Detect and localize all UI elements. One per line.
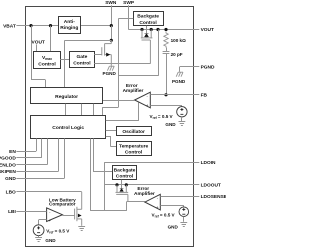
svg-text:GND: GND — [168, 224, 179, 229]
svg-text:PGND: PGND — [201, 64, 215, 70]
node SWN-drain — [110, 39, 113, 42]
svg-text:EN: EN — [9, 149, 16, 155]
wire ENLDO riser — [25, 164, 47, 166]
wire regulator to control logic c — [93, 104, 95, 116]
svg-text:SKIPEN: SKIPEN — [0, 169, 16, 175]
block Temperature Control — [117, 142, 152, 156]
svg-text:PGND: PGND — [103, 71, 117, 76]
svg-text:VOUT: VOUT — [32, 39, 45, 45]
wire U1 output to regulator — [103, 100, 135, 102]
wire gate control to NMOS gate — [94, 54, 102, 56]
source V1 Vref 0.5V — [177, 107, 187, 117]
transistor Q1 power NMOS — [102, 40, 112, 66]
svg-text:Control: Control — [38, 61, 56, 67]
svg-text:PGOOD: PGOOD — [0, 156, 16, 162]
wire LBO line — [25, 191, 82, 193]
ground GND of Q4 — [78, 227, 85, 231]
node P3 — [156, 28, 159, 31]
svg-text:Temperature: Temperature — [119, 144, 149, 150]
wire U2 + input to Vref — [160, 205, 184, 207]
svg-text:Oscillator: Oscillator — [122, 129, 145, 135]
svg-text:Backgate: Backgate — [114, 168, 136, 174]
wire CL to temperature control — [106, 136, 111, 138]
ground GND of V3 — [180, 223, 187, 227]
wire SWP down and right — [128, 29, 142, 31]
svg-text:GND: GND — [165, 122, 176, 127]
svg-text:Control: Control — [116, 174, 134, 180]
svg-text:Amplifier: Amplifier — [134, 191, 155, 197]
transistor Q3 LDO pass PMOS — [116, 185, 129, 202]
wire VOUT top line — [142, 29, 193, 31]
svg-text:Regulator: Regulator — [55, 94, 78, 100]
svg-text:LBO: LBO — [6, 190, 16, 196]
wire C1 to FB — [166, 54, 168, 95]
svg-text:FB: FB — [201, 93, 208, 99]
wire LDOIN down — [104, 162, 106, 211]
block Oscillator — [117, 127, 152, 136]
block Backgate Control top — [134, 12, 164, 26]
block Regulator — [31, 88, 103, 104]
wire U3 + input from Vref — [39, 219, 47, 221]
wire backgate2 body stub — [121, 180, 123, 185]
wire FB line — [150, 94, 193, 96]
wire regulator to control logic a — [65, 104, 67, 116]
pin VOUT — [193, 29, 199, 31]
wire Vmax to Gate Control — [60, 59, 69, 61]
svg-text:LBI: LBI — [8, 209, 16, 215]
svg-text:Gate: Gate — [76, 54, 87, 60]
resistor R1 100 kOhm — [164, 32, 168, 48]
source V2 Vref 0.5V — [33, 225, 44, 236]
diode D2 body diode — [121, 185, 123, 188]
ground GND of V1 — [179, 122, 186, 126]
wire CL enable down to gate node — [90, 139, 92, 211]
pin LDOIN — [193, 162, 199, 164]
svg-text:GND: GND — [45, 238, 56, 243]
wire gatectrl to backgate block — [118, 18, 120, 63]
svg-text:LDOOUT: LDOOUT — [201, 183, 221, 189]
block Gate Control — [70, 52, 95, 68]
svg-text:GND: GND — [5, 176, 16, 182]
transistor Q4 LBO open drain — [75, 192, 82, 226]
node VBAT-B — [49, 24, 52, 27]
block Anti-Ringing — [59, 17, 81, 34]
wire VBAT rail — [25, 25, 58, 27]
wire gate control lower output — [94, 63, 150, 65]
wire V2 to GND — [38, 236, 40, 238]
wire regulator to control logic b — [81, 104, 83, 116]
svg-text:Control: Control — [73, 61, 91, 67]
node P4 — [164, 28, 167, 31]
svg-text:ENLDO: ENLDO — [0, 163, 16, 169]
wire LDOOUT line — [104, 184, 193, 186]
node L1 — [115, 183, 118, 186]
svg-text:VOUT: VOUT — [201, 27, 214, 33]
wire CL to backgate2 — [93, 139, 95, 172]
wire gate node to U2 output — [127, 201, 145, 203]
svg-text:PGND: PGND — [172, 79, 186, 84]
wire PGND pin to ground — [180, 66, 193, 68]
block Vmax Control — [34, 52, 61, 69]
wire LBI to U3 — [25, 211, 47, 213]
wire SKIPEN riser — [25, 171, 58, 173]
node VBAT-A — [29, 24, 32, 27]
wire U1 + input to Vref — [150, 105, 182, 107]
pin FB — [193, 94, 199, 96]
wire VBAT to regulator — [31, 26, 33, 80]
wire LDOSENSE line — [160, 196, 193, 198]
svg-text:100 kΩ: 100 kΩ — [171, 38, 186, 43]
wire EN riser — [25, 151, 36, 153]
wire SWN to regulator — [65, 40, 111, 42]
pin PGND — [193, 66, 199, 68]
node SWN-top — [110, 24, 113, 27]
wire backgate1 body stub — [146, 26, 148, 30]
svg-text:Ringing: Ringing — [60, 25, 78, 31]
wire V3 to GND — [183, 217, 185, 222]
wire V1 to GND — [181, 117, 183, 121]
diode D1 body diode — [146, 30, 148, 34]
node L2 — [125, 183, 128, 186]
IC boundary box — [26, 7, 194, 247]
ground PGND of Q1 — [107, 66, 114, 71]
svg-text:Amplifier: Amplifier — [123, 88, 144, 94]
wire VBAT to Vmax control — [50, 26, 52, 51]
block Backgate Control 2 — [113, 166, 137, 180]
wire node P3 feedback — [158, 30, 160, 76]
wire U1 output jog to control logic — [118, 100, 120, 107]
transistor Q2 backgate PMOS — [141, 30, 153, 64]
svg-text:Backgate: Backgate — [137, 14, 159, 20]
ground PGND right — [176, 72, 183, 77]
svg-text:Comparator: Comparator — [49, 202, 76, 207]
svg-text:Anti-: Anti- — [64, 19, 76, 25]
wire CL to U1 underside — [106, 120, 139, 122]
wire LDOIN line — [104, 162, 193, 164]
wire PGOOD riser — [25, 157, 42, 159]
source V3 Vref 0.5V — [179, 207, 189, 217]
svg-text:Control: Control — [139, 20, 157, 26]
block Control Logic — [31, 116, 106, 139]
ground GND of V2 — [35, 238, 42, 242]
svg-text:20 pF: 20 pF — [171, 52, 183, 57]
svg-text:VBAT: VBAT — [3, 23, 16, 29]
wire CL to oscillator — [106, 130, 116, 132]
wire U3 output to Q4 gate — [62, 215, 74, 217]
svg-text:LDOSENSE: LDOSENSE — [201, 194, 226, 200]
node FB — [164, 93, 167, 96]
wire backgate column down — [118, 64, 120, 100]
node P1 — [140, 28, 143, 31]
wire GND riser — [25, 178, 64, 180]
capacitor C1 20 pF — [166, 48, 168, 52]
node P2 — [150, 28, 153, 31]
wire SWN vertical — [111, 26, 113, 41]
pin LDOOUT — [193, 184, 199, 186]
svg-text:LDOIN: LDOIN — [201, 160, 216, 166]
svg-text:Control: Control — [125, 150, 143, 156]
svg-text:Control Logic: Control Logic — [52, 125, 84, 131]
pin LDOSENSE — [193, 196, 199, 198]
